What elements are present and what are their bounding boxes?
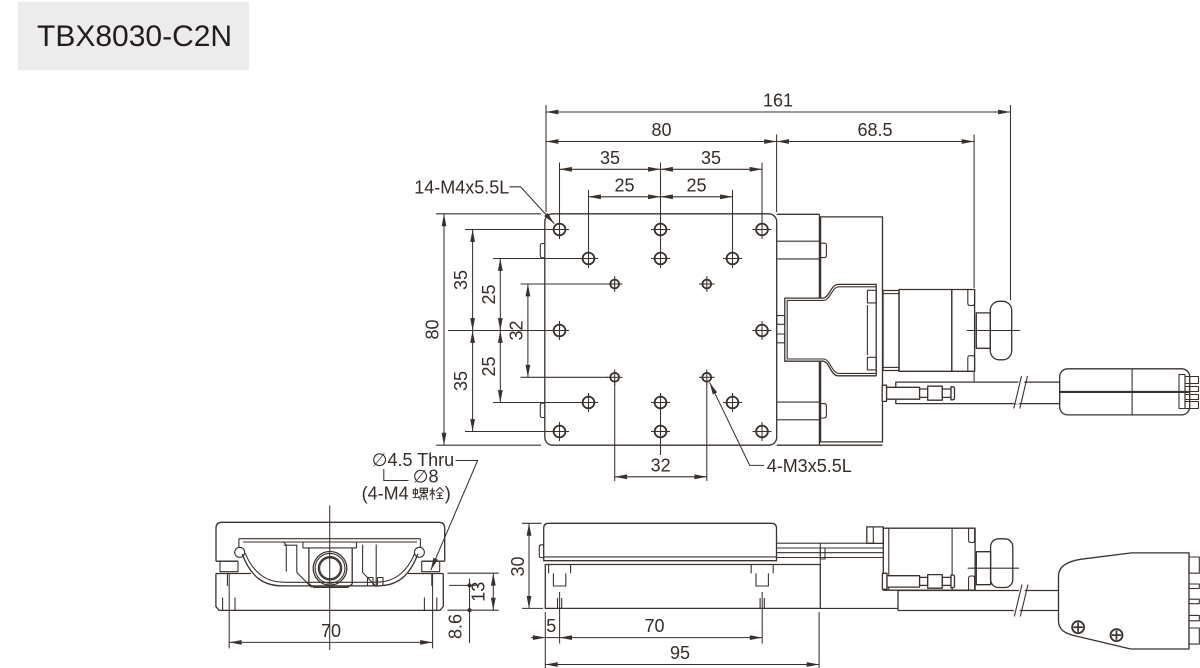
svg-text:35: 35 bbox=[701, 148, 721, 168]
side view: limit sensor rod bbox=[882, 573, 887, 589]
dimension 5 bbox=[544, 612, 546, 668]
side view: motor mount bracket bbox=[867, 527, 884, 544]
svg-text:25: 25 bbox=[479, 356, 499, 376]
side view: table left bump bbox=[539, 545, 543, 558]
svg-text:32: 32 bbox=[506, 320, 526, 340]
svg-text:4-M3x5.5L: 4-M3x5.5L bbox=[767, 456, 852, 476]
dimension 35 right bbox=[661, 168, 763, 170]
side view: base slots right bbox=[750, 565, 752, 574]
top view: knob bbox=[990, 301, 1011, 360]
side view: bottom plate line bbox=[820, 607, 898, 609]
svg-text:80: 80 bbox=[423, 319, 443, 339]
top view: motor endbell bbox=[952, 290, 975, 372]
front view: crossed roller balls bbox=[235, 547, 245, 557]
front view: vertical centerline bbox=[329, 506, 331, 651]
side view: table bbox=[544, 523, 777, 560]
svg-text:32: 32 bbox=[651, 455, 671, 475]
dimension 25 lower left bbox=[499, 331, 501, 403]
svg-text:70: 70 bbox=[644, 616, 664, 636]
dimension 32 left bbox=[521, 283, 609, 285]
top view: sensor cable housing bbox=[896, 382, 1060, 404]
front view: table lower tabs bbox=[220, 561, 238, 572]
svg-text:TBX8030-C2N: TBX8030-C2N bbox=[37, 20, 232, 53]
title block bbox=[18, 2, 249, 70]
side view: cable bbox=[897, 591, 899, 611]
dimension 25 upper left bbox=[493, 258, 581, 260]
svg-text:∅8: ∅8 bbox=[413, 466, 439, 486]
top view: moving table plate 80x80 bbox=[545, 214, 777, 445]
dimension 35 lower left bbox=[472, 331, 474, 432]
front view: nut top plate bbox=[302, 542, 304, 548]
front view: table underside bbox=[239, 538, 421, 540]
side view: connector contacts bbox=[1189, 557, 1199, 573]
svg-text:95: 95 bbox=[670, 643, 690, 663]
svg-text:25: 25 bbox=[614, 175, 634, 195]
top view: cable break symbol bbox=[1013, 378, 1025, 405]
dimension 30 bbox=[522, 522, 542, 524]
side view: connector bbox=[1059, 553, 1190, 649]
svg-text:13: 13 bbox=[469, 582, 489, 602]
top view: motor shaft boss bbox=[976, 313, 990, 348]
leader 4-M3x5.5L bbox=[710, 382, 764, 465]
dimension 70 front bbox=[228, 574, 230, 648]
svg-text:(4-M4: (4-M4 bbox=[362, 483, 409, 503]
svg-text:35: 35 bbox=[451, 270, 471, 290]
svg-text:161: 161 bbox=[763, 91, 793, 111]
top view: cable connector bbox=[1060, 369, 1190, 415]
dimension 32 bottom bbox=[614, 384, 616, 482]
glyph shuan (CJK) bbox=[430, 488, 435, 500]
top view: coupling housing bracket bbox=[785, 284, 876, 375]
svg-text:25: 25 bbox=[479, 284, 499, 304]
svg-text:68.5: 68.5 bbox=[857, 120, 892, 140]
side view: base slots left bbox=[548, 565, 550, 574]
front view: base slot lines bbox=[226, 574, 228, 587]
dimension 80 left vertical bbox=[436, 213, 541, 215]
svg-text:30: 30 bbox=[508, 556, 528, 576]
dimension 25 left bbox=[588, 190, 590, 251]
svg-text:8.6: 8.6 bbox=[446, 614, 466, 639]
dimension 161 bbox=[545, 105, 547, 212]
glyph luo (CJK) bbox=[413, 488, 420, 499]
dimension 70 side bbox=[559, 592, 561, 644]
side view: motor bbox=[883, 528, 975, 590]
top view: connector tip contacts bbox=[1179, 375, 1185, 409]
dimension 25 right bbox=[661, 196, 733, 198]
front view: carriage bowl bbox=[242, 554, 418, 586]
dimension 35 left bbox=[559, 163, 561, 222]
svg-text:80: 80 bbox=[651, 120, 671, 140]
top view: tabs between plate and coupling housing bbox=[777, 316, 785, 325]
top view: 4 M3 holes bbox=[607, 276, 623, 292]
top view: knob centerline bbox=[967, 330, 1020, 332]
dimension 35 upper left bbox=[465, 229, 552, 231]
svg-text:35: 35 bbox=[600, 148, 620, 168]
side view: shaft boss bbox=[976, 552, 990, 585]
side view: base bbox=[545, 565, 820, 609]
top view: base clamp tabs bbox=[820, 243, 827, 257]
top view: stage base right section bbox=[821, 217, 883, 442]
side view: connector screws bbox=[1072, 621, 1084, 633]
side view: cable break bbox=[1014, 586, 1026, 613]
dimension 8.6 bbox=[449, 584, 478, 586]
top view: limit sensor rod bbox=[882, 385, 886, 401]
svg-text:25: 25 bbox=[686, 175, 706, 195]
front view: nut block bbox=[309, 548, 352, 587]
front view: bowl notches bbox=[368, 578, 374, 586]
top view: motor body bbox=[899, 290, 952, 372]
dimension 13 bbox=[448, 572, 499, 574]
svg-text:70: 70 bbox=[321, 621, 341, 641]
front view: table bbox=[216, 522, 445, 561]
side view: knob bbox=[991, 539, 1013, 588]
side view: leadscrew housing lines bbox=[777, 542, 876, 544]
dimension 68.5 bbox=[973, 135, 975, 289]
svg-text:): ) bbox=[445, 483, 451, 503]
front view: nut housing prisms bbox=[285, 545, 287, 571]
dimension 80 (top) bbox=[776, 135, 778, 213]
front view: base bbox=[216, 574, 443, 611]
dimension 95 bbox=[818, 612, 820, 668]
svg-text:14-M4x5.5L: 14-M4x5.5L bbox=[414, 177, 509, 197]
top view: motor flange bbox=[883, 291, 899, 371]
top view: base clamp steps bbox=[777, 240, 820, 242]
top view: 14 M4 mounting holes bbox=[550, 220, 569, 239]
top view: plate left edge tabs bbox=[540, 244, 545, 258]
svg-text:5: 5 bbox=[546, 616, 556, 636]
front view: leadscrew nut rings bbox=[313, 552, 347, 586]
svg-text:35: 35 bbox=[451, 371, 471, 391]
